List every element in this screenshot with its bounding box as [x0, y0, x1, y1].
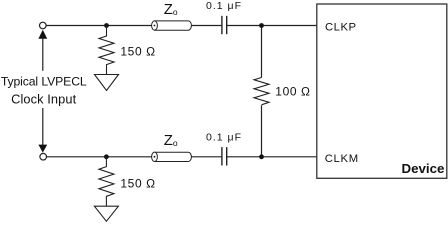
svg-text:CLKP: CLKP [325, 21, 357, 33]
transmission line T1 Zo (top) [152, 21, 192, 30]
svg-text:Device: Device [402, 161, 445, 176]
svg-text:Typical LVPECL: Typical LVPECL [1, 75, 87, 89]
svg-text:100 Ω: 100 Ω [275, 85, 310, 99]
svg-text:0.1 μF: 0.1 μF [206, 132, 242, 144]
node D junction dot (bottom rail / 100 ohm) [259, 154, 264, 159]
label Typical LVPECL Clock Input [1, 75, 87, 107]
resistor R2 150 ohm (bottom) [99, 157, 114, 206]
node B junction dot (bottom rail / R2) [104, 154, 109, 159]
svg-text:0.1 μF: 0.1 μF [206, 0, 242, 12]
input terminal bottom (open circle) [40, 153, 47, 160]
wire vertical between rails (100 ohm leg) [261, 26, 263, 157]
node C junction dot (top rail / 100 ohm) [259, 23, 264, 28]
wire top rail CLKP [46, 25, 317, 27]
capacitor C1 0.1 uF (top) [222, 16, 227, 34]
svg-text:Clock Input: Clock Input [11, 91, 76, 106]
svg-text:CLKM: CLKM [325, 153, 359, 165]
svg-text:150 Ω: 150 Ω [120, 176, 155, 190]
transmission line T2 Zo (bottom) [152, 152, 192, 161]
node A junction dot (top rail / R1) [104, 23, 109, 28]
annotation arrow up to top terminal [38, 30, 47, 71]
input terminal top (open circle) [40, 22, 47, 29]
ground (top) [95, 75, 119, 91]
wire bottom rail CLKM [47, 156, 317, 158]
svg-text:150 Ω: 150 Ω [120, 45, 155, 59]
annotation arrow down to bottom terminal [38, 108, 47, 153]
resistor R1 150 ohm (top) [99, 26, 114, 75]
capacitor C2 0.1 uF (bottom) [222, 147, 227, 165]
device U1 box [317, 4, 447, 178]
resistor R3 100 ohm (middle) [254, 78, 269, 105]
ground (bottom) [94, 206, 118, 221]
